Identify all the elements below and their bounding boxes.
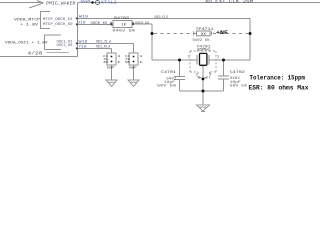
svg-text:NF: NF — [129, 66, 138, 69]
svg-text:PMIC_WAKE0: PMIC_WAKE0 — [46, 1, 76, 6]
svg-text:0402 5%: 0402 5% — [112, 28, 135, 32]
svg-text:MTCP_OSC0_XI: MTCP_OSC0_XI — [43, 17, 73, 21]
svg-text:TP4711: TP4711 — [196, 28, 214, 32]
svg-text:XTAL1: XTAL1 — [101, 0, 117, 6]
svg-text:OSC1_XO_A: OSC1_XO_A — [96, 46, 111, 50]
svg-text:C4701: C4701 — [161, 71, 176, 75]
svg-text:R4703: R4703 — [114, 17, 129, 21]
svg-text:VDDA_OSC1 + 1.8V: VDDA_OSC1 + 1.8V — [5, 41, 49, 45]
svg-text:50V 5%: 50V 5% — [230, 83, 247, 87]
svg-text:OSC0_XI_R: OSC0_XI_R — [155, 15, 169, 19]
svg-text:0402 5%: 0402 5% — [193, 38, 210, 42]
svg-text:1: 1 — [188, 56, 190, 60]
svg-text:Y18: Y18 — [79, 46, 87, 50]
svg-text:XO_EXT_CLK 26M: XO_EXT_CLK 26M — [205, 0, 253, 4]
svg-text:VDDA_MTCP: VDDA_MTCP — [14, 18, 40, 22]
svg-text:1K: 1K — [121, 24, 127, 28]
svg-text:+NF: +NF — [216, 30, 228, 36]
svg-text:Tolerance: 15ppm: Tolerance: 15ppm — [250, 75, 306, 82]
svg-text:MTCP_OSC0_XO: MTCP_OSC0_XO — [43, 22, 73, 26]
svg-text:NF: NF — [107, 66, 116, 69]
svg-text:2: 2 — [196, 74, 198, 78]
svg-text:W18: W18 — [79, 41, 88, 45]
svg-text:W19: W19 — [79, 16, 88, 20]
svg-text:5N: 5N — [125, 61, 131, 64]
svg-text:4/20: 4/20 — [28, 51, 44, 56]
svg-text:OSC0_XO_A: OSC0_XO_A — [91, 22, 114, 26]
svg-text:3: 3 — [217, 56, 219, 60]
svg-text:OSC1_XI_A: OSC1_XI_A — [96, 40, 112, 44]
svg-text:4: 4 — [210, 74, 212, 78]
svg-text:+ 1.8V: + 1.8V — [20, 23, 39, 27]
svg-text:26MHz: 26MHz — [197, 48, 211, 52]
svg-text:J18: J18 — [78, 21, 86, 25]
svg-text:OSC0_XO: OSC0_XO — [135, 21, 149, 25]
svg-text:XO26: XO26 — [81, 0, 91, 4]
svg-text:C4702: C4702 — [230, 71, 245, 75]
svg-text:50V 5%: 50V 5% — [157, 84, 176, 88]
svg-text:OSC1_XO: OSC1_XO — [57, 43, 73, 47]
svg-text:4N: 4N — [103, 61, 109, 64]
svg-text:ESR: 80 ohms Max: ESR: 80 ohms Max — [249, 84, 309, 91]
